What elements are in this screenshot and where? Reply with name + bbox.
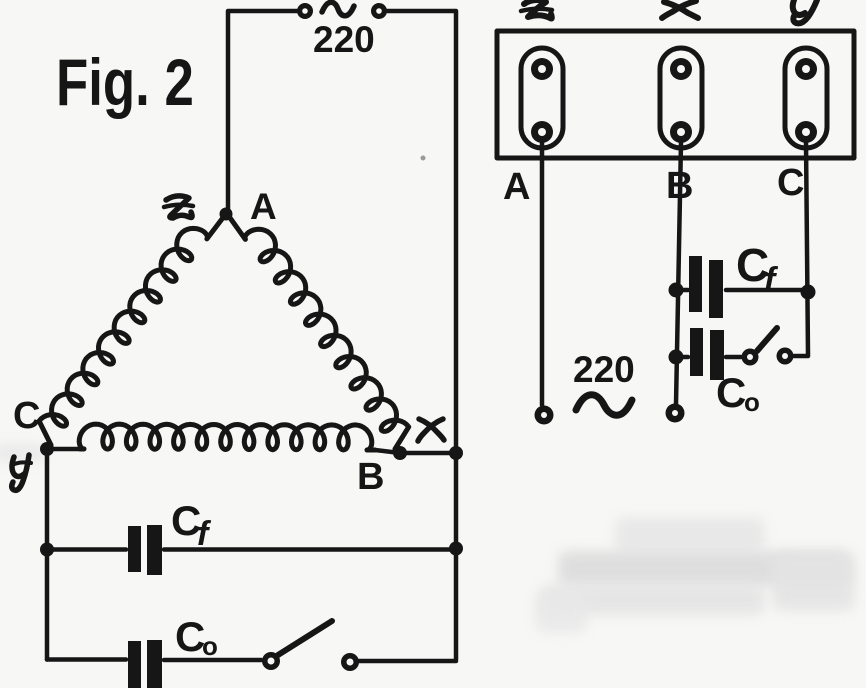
svg-text:o: o: [202, 631, 218, 661]
svg-text:Fig. 2: Fig. 2: [56, 45, 194, 119]
svg-text:A: A: [250, 186, 277, 227]
svg-text:220: 220: [573, 349, 635, 390]
svg-text:A: A: [503, 166, 530, 208]
svg-text:f: f: [764, 261, 779, 299]
svg-text:B: B: [357, 456, 384, 498]
svg-text:C: C: [13, 395, 40, 437]
svg-text:C: C: [175, 613, 205, 660]
svg-text:o: o: [744, 387, 760, 417]
svg-text:220: 220: [313, 19, 375, 60]
svg-text:B: B: [666, 165, 693, 207]
svg-text:C: C: [716, 369, 746, 416]
svg-text:C: C: [777, 162, 804, 204]
